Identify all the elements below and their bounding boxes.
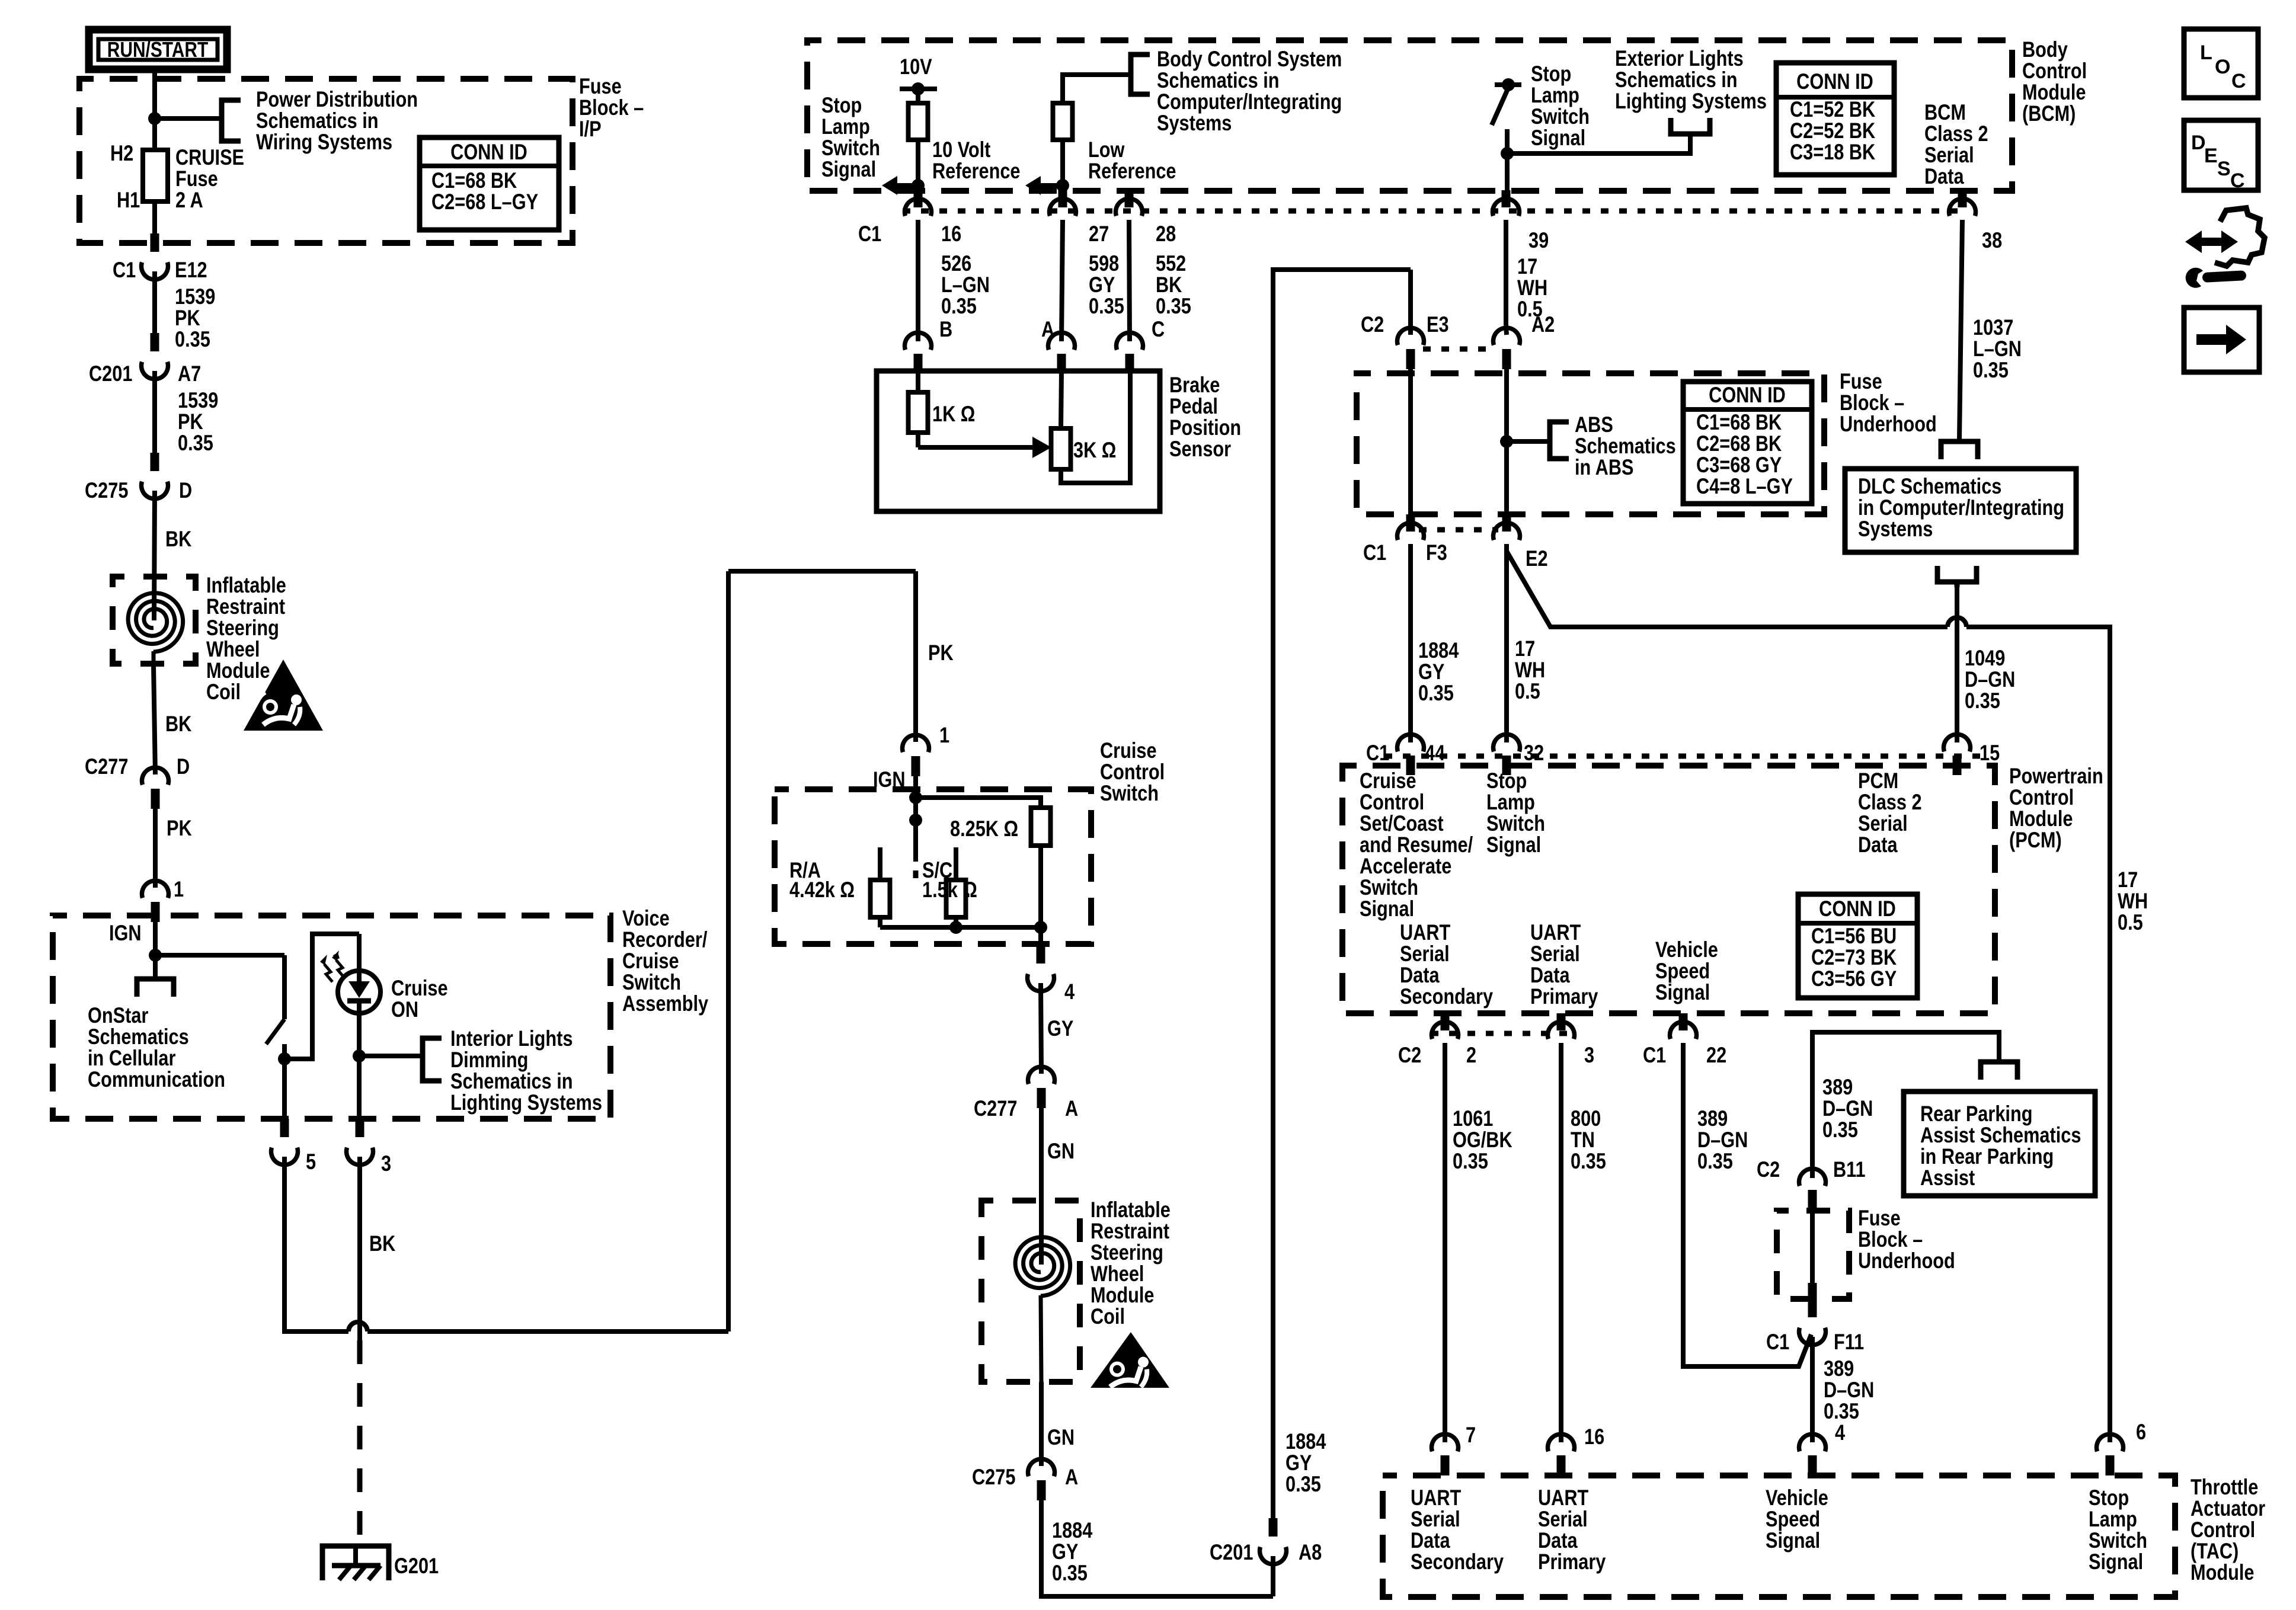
label C bps	[1152, 317, 1165, 341]
svg-text:C2: C2	[1361, 312, 1384, 337]
wire to exterior lights ref	[1507, 134, 1690, 153]
label C2 pcm	[1398, 1043, 1421, 1067]
label 27	[1089, 222, 1109, 246]
svg-text:0.5: 0.5	[1515, 679, 1540, 703]
icon diagnostic wrench	[2185, 208, 2265, 288]
LED light arrows	[320, 950, 344, 982]
ref bracket from DLC	[1937, 566, 1977, 587]
svg-text:ON: ON	[391, 997, 418, 1022]
svg-text:Data: Data	[1858, 833, 1898, 857]
ref bracket Rear Parking	[1981, 1062, 2017, 1080]
junction LED to dimming ref	[353, 1049, 366, 1062]
svg-text:Primary: Primary	[1530, 984, 1598, 1009]
connector 1 cruise switch	[903, 735, 929, 776]
svg-text:GN: GN	[1047, 1139, 1075, 1163]
label 4 cruise	[1064, 980, 1075, 1004]
label S/C 1.5k	[922, 858, 977, 902]
connector TAC pin 6	[2096, 1434, 2123, 1475]
connector BPS pin C	[1117, 332, 1143, 371]
label 15	[1980, 741, 2000, 765]
svg-text:C2: C2	[1398, 1043, 1421, 1067]
wire bus out	[1038, 927, 1043, 945]
wire 10V to resistor	[916, 89, 920, 103]
svg-text:Systems: Systems	[1157, 111, 1232, 135]
text PCM Class 2 Serial Data	[1858, 769, 1922, 857]
wire PK cruise feed	[913, 571, 918, 742]
connector PCM pin 32	[1494, 734, 1520, 775]
text Cruise Control Switch	[1100, 738, 1165, 805]
label 4 tac	[1835, 1420, 1845, 1445]
svg-text:Communication: Communication	[88, 1067, 225, 1092]
svg-text:C1: C1	[1363, 540, 1386, 565]
wire switch fixed contact	[282, 955, 287, 1019]
text Low Reference	[1088, 137, 1176, 183]
svg-text:22: 22	[1706, 1043, 1726, 1067]
svg-text:GY: GY	[1047, 1016, 1074, 1041]
text Cruise Control SetCoast	[1360, 769, 1473, 921]
wire A2 from 39	[1506, 325, 1507, 335]
voice recorder box dashed	[53, 916, 610, 1119]
svg-text:O: O	[2215, 56, 2230, 78]
text Power Distribution Schematics	[256, 87, 418, 154]
label 8.25K	[950, 817, 1018, 841]
label C201 A8	[1210, 1540, 1253, 1564]
label 1037 L-GN 0.35	[1973, 315, 2022, 382]
label C1	[113, 258, 136, 282]
connector TAC pin 7	[1432, 1434, 1459, 1475]
connector BPS pin B	[905, 332, 932, 371]
svg-text:(BCM): (BCM)	[2022, 101, 2076, 126]
label PK cruise	[928, 641, 954, 665]
label 389 D-GN 0.35 p22	[1697, 1106, 1748, 1173]
wire hop 1049	[1948, 617, 1966, 627]
svg-text:F11: F11	[1834, 1330, 1864, 1354]
wire loop up	[726, 571, 731, 1331]
svg-text:3: 3	[1584, 1043, 1594, 1067]
svg-text:Signal: Signal	[1360, 897, 1414, 921]
text Fuse Block Underhood small	[1858, 1206, 1955, 1273]
wire resistor bus	[880, 925, 1041, 930]
label 44	[1425, 741, 1445, 765]
connector 3	[347, 1119, 373, 1165]
svg-text:4.42k Ω: 4.42k Ω	[789, 878, 855, 902]
svg-text:Signal: Signal	[1531, 126, 1585, 150]
wire R/A to bus	[878, 917, 882, 927]
svg-text:1.5k Ω: 1.5k Ω	[922, 878, 977, 902]
svg-text:Secondary: Secondary	[1400, 984, 1493, 1009]
brake pedal position sensor box	[877, 371, 1160, 511]
wire 3K to C	[1061, 371, 1130, 483]
label 3	[381, 1151, 391, 1176]
junction ABS	[1500, 435, 1513, 448]
label PK	[167, 816, 192, 840]
label C2 b11	[1757, 1157, 1780, 1182]
svg-text:0.35: 0.35	[941, 294, 977, 318]
label A C277	[1065, 1096, 1078, 1121]
wire switch to LED branch	[284, 934, 359, 1059]
svg-text:S: S	[2217, 158, 2231, 180]
wire to loop corner	[367, 1329, 728, 1334]
wire fuse to connector C1	[152, 201, 157, 233]
svg-text:0.35: 0.35	[1822, 1118, 1858, 1142]
svg-text:A2: A2	[1531, 312, 1555, 337]
airbag warning triangle 1	[244, 660, 323, 731]
signal arrow low ref	[1025, 176, 1061, 195]
label D b	[177, 754, 190, 779]
wire GY	[1041, 983, 1041, 1074]
ref bracket OnStar	[137, 955, 174, 997]
connector C1 F11	[1799, 1299, 1826, 1345]
conn id box underhood	[1683, 382, 1812, 504]
contact R/A stub	[878, 847, 882, 880]
connector TAC pin 16	[1548, 1434, 1575, 1475]
resistor S/C 1.5k	[946, 880, 966, 917]
pin H1	[117, 188, 140, 212]
svg-text:Switch: Switch	[1100, 781, 1159, 805]
fuse CRUISE 2A	[143, 150, 168, 201]
svg-text:C: C	[2231, 70, 2246, 92]
connector C201 pin A8	[1260, 1518, 1287, 1596]
svg-text:4: 4	[1064, 980, 1075, 1004]
text Body Control System Schematics	[1157, 47, 1342, 135]
label 16	[941, 222, 961, 246]
label 552 BK 0.35	[1156, 251, 1191, 318]
ignition power feed RUN/START	[89, 30, 227, 69]
label C1 BCM	[858, 222, 881, 246]
junction low ref	[1056, 179, 1069, 192]
connector C201 pin A7	[142, 333, 168, 379]
resistor 3K	[1051, 428, 1071, 469]
conn id box BCM	[1776, 63, 1894, 175]
text Body Control Module BCM	[2022, 37, 2087, 126]
junction bus SC	[949, 921, 962, 934]
svg-text:16: 16	[1584, 1425, 1604, 1449]
onoff switch blade	[266, 1019, 284, 1044]
svg-text:2: 2	[1466, 1043, 1476, 1067]
wire 1884 GY F3	[1408, 544, 1413, 742]
connector C1 pin E12	[142, 233, 168, 280]
svg-text:D: D	[179, 478, 192, 502]
label D	[179, 478, 192, 502]
supply 10V	[900, 55, 937, 95]
wire BK to coil	[154, 491, 155, 620]
text Powertrain Control Module	[2009, 764, 2103, 852]
svg-text:Coil: Coil	[1091, 1304, 1125, 1329]
svg-text:0.5: 0.5	[2118, 910, 2143, 934]
svg-text:B: B	[939, 317, 952, 341]
label E2	[1526, 546, 1548, 571]
svg-text:32: 32	[1524, 741, 1544, 765]
connector PCM pin 15	[1943, 734, 1970, 775]
svg-text:BK: BK	[369, 1231, 396, 1256]
junction node on ignition feed	[148, 112, 161, 125]
text UART Serial Data Primary TAC	[1538, 1486, 1606, 1574]
text CRUISE Fuse 2 A	[175, 145, 244, 212]
text UART Serial Data Secondary PCM	[1400, 920, 1493, 1009]
svg-text:38: 38	[1982, 228, 2002, 252]
BCM dashed box	[807, 40, 2012, 191]
svg-text:Lighting Systems: Lighting Systems	[1615, 89, 1767, 113]
text 10 Volt Reference	[932, 137, 1021, 183]
resistor 1K	[909, 392, 928, 433]
connector A2	[1494, 328, 1520, 369]
TAC module dashed box	[1383, 1475, 2175, 1597]
label A2	[1531, 312, 1555, 337]
svg-text:E: E	[2204, 145, 2218, 167]
svg-text:0.35: 0.35	[1697, 1149, 1733, 1173]
label C2 E3	[1361, 312, 1384, 337]
junction bus 825	[1034, 921, 1047, 934]
ref bracket Body Control System	[1131, 55, 1150, 94]
wire 1884 long vertical	[1273, 270, 1411, 1518]
ref bracket Exterior Lights	[1671, 118, 1710, 134]
junction IGN cruise 1	[909, 791, 922, 804]
svg-text:BK: BK	[165, 527, 192, 551]
label 389 D-GN 0.35 f11	[1824, 1356, 1874, 1423]
text Fuse Block Underhood	[1840, 369, 1937, 436]
svg-text:C1: C1	[858, 222, 881, 246]
svg-text:C1: C1	[1766, 1330, 1789, 1354]
wire 8.25K to bus	[1038, 846, 1043, 927]
svg-text:7: 7	[1466, 1423, 1476, 1447]
svg-text:C1: C1	[113, 258, 136, 282]
wire 1884 GY to corner	[1041, 1500, 1273, 1596]
text Rear Parking Assist	[1920, 1102, 2081, 1190]
label 5	[306, 1150, 316, 1174]
icon LOC box	[2184, 29, 2258, 98]
svg-text:H2: H2	[110, 141, 133, 165]
connector PCM pin 44	[1398, 734, 1424, 775]
junction switch output	[278, 1052, 291, 1065]
PCM bottom dotted	[1431, 1031, 1577, 1036]
label C275 A	[972, 1465, 1015, 1489]
wire switch lower contact	[282, 1044, 287, 1059]
svg-text:0.35: 0.35	[1973, 358, 2009, 382]
svg-text:in ABS: in ABS	[1575, 455, 1634, 479]
steering wheel coil 2	[1015, 1237, 1070, 1382]
signal arrow stop lamp	[882, 176, 917, 195]
svg-text:0.35: 0.35	[175, 327, 210, 351]
label 1K	[932, 402, 975, 426]
connector BCM pin 27	[1050, 190, 1076, 216]
svg-text:CONN ID: CONN ID	[1819, 897, 1896, 921]
wire stop lamp sw down	[1505, 129, 1510, 190]
svg-text:Underhood: Underhood	[1840, 412, 1937, 436]
wire 552 BK	[1129, 220, 1130, 341]
rear parking assist box	[1904, 1092, 2095, 1196]
label BK b	[165, 712, 192, 736]
label 1049 D-GN 0.35	[1965, 646, 2015, 713]
text Throttle Actuator Control Module	[2191, 1475, 2265, 1585]
svg-text:5: 5	[306, 1150, 316, 1174]
svg-text:GN: GN	[1047, 1425, 1075, 1449]
wire PK to conn1	[153, 809, 158, 888]
wire BK coil to C277	[154, 664, 155, 774]
svg-text:C277: C277	[85, 754, 128, 779]
svg-text:C1: C1	[1643, 1043, 1666, 1067]
wire E3 internal	[1408, 367, 1413, 514]
label A bps	[1041, 317, 1054, 341]
label B11	[1833, 1157, 1866, 1182]
label IGN left	[109, 921, 142, 945]
wiper arrow to 3K	[918, 433, 1051, 458]
wire BK ground solid	[357, 1157, 362, 1340]
text Inflatable Restraint coil 2	[1091, 1198, 1171, 1329]
svg-text:44: 44	[1425, 741, 1445, 765]
connector BPS pin A	[1048, 332, 1075, 371]
label GN lower	[1047, 1425, 1075, 1449]
svg-text:Lighting Systems: Lighting Systems	[450, 1090, 602, 1115]
wire E2 to TAC diagonal	[1507, 551, 1948, 627]
wire to 8.25K	[916, 798, 1041, 808]
svg-text:BK: BK	[165, 712, 192, 736]
svg-text:PK: PK	[167, 816, 192, 840]
resistor low ref	[1053, 103, 1073, 140]
coil box 1 dashed	[113, 577, 196, 664]
svg-text:0.35: 0.35	[1418, 681, 1454, 705]
wire A2 internal	[1504, 367, 1509, 514]
wire to ABS ref	[1507, 439, 1550, 444]
text UART Serial Data Primary PCM	[1530, 920, 1598, 1009]
wire 389 D-GN pin22	[1683, 1043, 1811, 1366]
indicator LED Cruise ON	[338, 971, 380, 1014]
junction IGN	[149, 949, 162, 962]
contact S/C stub	[954, 847, 958, 880]
label 1884 GY 0.35 f3	[1418, 638, 1459, 705]
wire connector5 down	[284, 1157, 348, 1331]
wire E3 bridge corner	[1408, 270, 1413, 335]
wire GN lower	[1039, 1382, 1044, 1466]
resistor 10V ref	[909, 103, 928, 140]
svg-text:C2=68 L–GY: C2=68 L–GY	[431, 190, 538, 214]
coil box 2 dashed	[981, 1201, 1080, 1382]
icon DESC box	[2184, 120, 2258, 192]
connector C2 pin E3	[1398, 328, 1424, 369]
svg-text:C201: C201	[1210, 1540, 1253, 1564]
label GN upper	[1047, 1139, 1075, 1163]
connector BCM pin 39	[1492, 190, 1519, 216]
text Stop Lamp Switch Signal PCM	[1486, 769, 1545, 857]
svg-text:PK: PK	[928, 641, 954, 665]
label C1 F3	[1363, 540, 1386, 565]
svg-text:0.35: 0.35	[1571, 1149, 1606, 1173]
label 17 WH 0.5 a	[1517, 254, 1547, 321]
svg-text:1: 1	[174, 877, 184, 901]
svg-text:Wiring Systems: Wiring Systems	[256, 130, 392, 154]
ref bracket Interior Lights	[423, 1038, 442, 1081]
label A7	[178, 361, 201, 386]
junction IGN cruise 2	[909, 814, 922, 827]
label 526 L-GN 0.35	[941, 251, 990, 318]
svg-text:39: 39	[1528, 228, 1549, 252]
svg-text:0.35: 0.35	[1156, 294, 1191, 318]
fuse block underhood box	[1357, 373, 1824, 514]
label 389 D-GN 0.35 b11	[1822, 1075, 1873, 1142]
wire 1049 D-GN	[1955, 587, 1959, 742]
wire IGN to switch	[155, 953, 284, 958]
wire 17 WH E2	[1504, 544, 1509, 742]
text OnStar Schematics	[88, 1003, 225, 1092]
text Fuse Block - I/P	[579, 74, 644, 141]
svg-text:Signal: Signal	[1766, 1528, 1820, 1553]
wire 526 L-GN	[916, 220, 920, 341]
svg-text:H1: H1	[117, 188, 140, 212]
label B	[939, 317, 952, 341]
label 3 pcm	[1584, 1043, 1594, 1067]
svg-text:27: 27	[1089, 222, 1109, 246]
connector BCM pin 38	[1949, 190, 1976, 216]
svg-text:CONN ID: CONN ID	[1796, 69, 1873, 94]
text Cruise ON	[391, 976, 448, 1022]
wire F11 down	[1810, 1337, 1815, 1442]
svg-text:10V: 10V	[900, 55, 932, 79]
svg-text:E3: E3	[1427, 312, 1449, 337]
F3 E2 dotted	[1419, 527, 1498, 533]
icon forward arrow box	[2184, 308, 2259, 372]
svg-text:C4=8 L–GY: C4=8 L–GY	[1696, 474, 1793, 498]
svg-text:G201: G201	[394, 1554, 439, 1578]
svg-text:A: A	[1065, 1096, 1078, 1121]
svg-text:L: L	[2200, 41, 2212, 64]
wire 1061 OGBK	[1443, 1043, 1447, 1442]
svg-text:Signal: Signal	[1655, 980, 1710, 1004]
resistor 8.25K	[1031, 808, 1051, 846]
text Stop Lamp Switch Signal sw	[1531, 62, 1590, 150]
svg-text:C3=56 GY: C3=56 GY	[1811, 966, 1897, 991]
wire lowref up	[1063, 75, 1131, 103]
wire GN upper	[1039, 1108, 1044, 1265]
pin H2	[110, 141, 133, 165]
svg-text:(PCM): (PCM)	[2009, 828, 2062, 852]
wire A internal	[1061, 371, 1061, 428]
connector PCM pin 22	[1670, 1013, 1697, 1039]
label 39	[1528, 228, 1549, 252]
connector E2	[1494, 514, 1520, 540]
text Brake Pedal Position Sensor	[1169, 373, 1241, 461]
connector C275 pin D	[142, 453, 168, 499]
label C1 f11	[1766, 1330, 1789, 1354]
svg-text:Signal: Signal	[1486, 833, 1541, 857]
wire 1539 PK segment 2	[152, 371, 157, 453]
label 1539 PK 0.35	[175, 284, 215, 351]
label E3	[1427, 312, 1449, 337]
BCM connector row dotted	[903, 209, 1968, 214]
wire resistor to pin16	[916, 140, 920, 190]
fuse block I/P dashed box	[79, 79, 573, 243]
connector TAC pin 4	[1799, 1434, 1826, 1475]
svg-text:3: 3	[381, 1151, 391, 1176]
svg-text:C201: C201	[89, 361, 132, 386]
svg-text:C: C	[1152, 317, 1165, 341]
wire hop over BK	[348, 1322, 367, 1331]
label 800 TN 0.35	[1571, 1106, 1606, 1173]
label 7	[1466, 1423, 1476, 1447]
svg-text:A7: A7	[178, 361, 201, 386]
svg-text:D: D	[2191, 132, 2206, 154]
label 2 pcm	[1466, 1043, 1476, 1067]
text Vehicle Speed Signal PCM	[1655, 937, 1718, 1004]
wire loop bridge	[728, 569, 916, 574]
wire to dimming ref	[359, 1054, 423, 1058]
label BK ground	[369, 1231, 396, 1256]
text Vehicle Speed Signal TAC	[1766, 1486, 1828, 1553]
label 3K	[1073, 438, 1116, 462]
connector C275 pin A	[1028, 1459, 1055, 1500]
connector BCM pin 28	[1116, 190, 1143, 216]
svg-text:F3: F3	[1426, 540, 1447, 565]
wire BK ground dashed	[357, 1340, 363, 1543]
svg-text:C2: C2	[1757, 1157, 1780, 1182]
